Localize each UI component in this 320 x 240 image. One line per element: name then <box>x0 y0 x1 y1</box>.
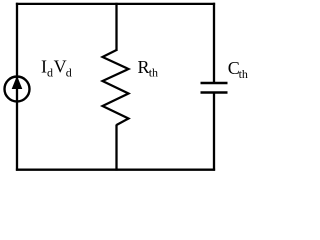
wire top net (node A) <box>16 3 215 5</box>
label IdVd <box>41 57 72 80</box>
svg-text:V: V <box>54 57 67 77</box>
capacitor C1 top plate <box>201 82 228 85</box>
wire right branch top <box>213 3 215 83</box>
svg-text:th: th <box>239 67 248 81</box>
wire middle branch bottom <box>115 125 117 171</box>
resistor R1 zigzag <box>103 50 129 125</box>
svg-text:th: th <box>149 66 158 80</box>
label Rth <box>138 57 159 80</box>
label Cth <box>228 58 248 81</box>
svg-text:d: d <box>66 65 72 79</box>
svg-text:d: d <box>47 65 53 79</box>
current source I1 arrow <box>12 76 23 89</box>
wire left branch <box>16 3 18 171</box>
capacitor C1 bottom plate <box>201 91 228 94</box>
current source I1 circle <box>5 77 30 102</box>
wire right branch bottom <box>213 93 215 171</box>
wire middle branch top <box>115 3 117 51</box>
wire bottom net (node B) <box>16 169 215 171</box>
